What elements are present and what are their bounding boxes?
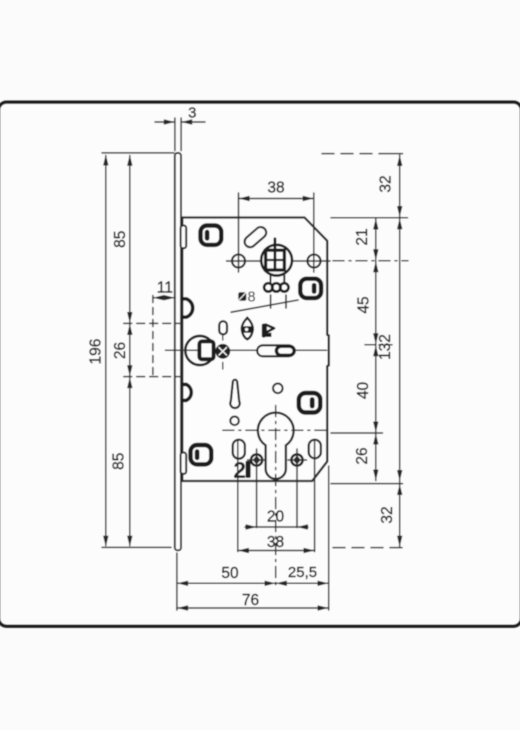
ext screw right — [296, 449, 298, 528]
dashed line lower — [124, 376, 181, 378]
svg-text:45: 45 — [356, 296, 373, 313]
right inner dim line — [375, 219, 377, 481]
svg-text:26: 26 — [112, 342, 129, 359]
arrow 32b up — [397, 484, 402, 495]
teardrop slot — [230, 380, 239, 408]
right outer dim line — [399, 155, 401, 547]
arrow 38t right — [303, 196, 314, 201]
latch axis — [166, 349, 327, 351]
D-hole bottom-left — [191, 445, 212, 464]
arrow 11 left — [153, 295, 164, 300]
arrow 20 left — [297, 524, 308, 529]
arrow 32t down — [397, 206, 402, 217]
cylinder axis dashdot — [223, 429, 330, 431]
svg-text:2: 2 — [233, 457, 246, 483]
dashed line upper — [124, 322, 181, 324]
svg-text:21: 21 — [354, 228, 371, 245]
dim 11 extension vertical — [152, 296, 154, 377]
dim 76 line — [177, 607, 329, 609]
top dash line — [322, 153, 380, 155]
leader line ø8 — [231, 300, 298, 312]
svg-text:25,5: 25,5 — [288, 564, 317, 581]
follower horizontal centreline — [227, 260, 331, 262]
latch screw — [216, 334, 229, 369]
bottom dash line — [333, 547, 404, 549]
arrowheads — [103, 119, 402, 610]
ext below faceplate — [176, 553, 178, 610]
dim 38 top line — [239, 198, 314, 200]
arrow 26l up — [127, 324, 132, 335]
body bottom ext right — [331, 483, 403, 485]
ext oval right — [314, 441, 316, 552]
arrow 196 up — [103, 155, 108, 166]
svg-text:40: 40 — [355, 382, 372, 400]
arrow 38b left — [238, 548, 249, 553]
oval left of cylinder — [233, 440, 245, 459]
left top extension — [102, 152, 174, 154]
arrow 26l down — [127, 365, 132, 376]
arrow 85b up — [127, 377, 132, 388]
svg-text:85: 85 — [112, 231, 129, 248]
small circle below slot — [273, 384, 283, 394]
latch circle — [185, 336, 214, 365]
cylinder level ext right — [331, 432, 383, 434]
arrow 196 down — [103, 536, 108, 547]
cylinder vertical dashdot — [275, 406, 277, 585]
horizontal adjuster slot — [257, 345, 294, 356]
edge tab semicircle upper — [183, 299, 193, 317]
lock body — [182, 218, 328, 482]
euro cylinder keyhole — [258, 413, 294, 479]
left bottom extension — [102, 546, 171, 548]
arrow 3 left — [181, 119, 192, 124]
bowtie stamp — [241, 318, 254, 340]
dim 196 line — [105, 156, 107, 546]
D-hole top-left — [201, 226, 222, 245]
three hole chain — [264, 283, 288, 308]
arrow 85b down — [127, 536, 132, 547]
arrow 76 right — [318, 605, 329, 610]
arrow 11 right — [164, 295, 175, 300]
D-hole right-upper — [300, 279, 321, 298]
svg-text:85: 85 — [110, 453, 127, 470]
cyl screw right — [288, 454, 307, 465]
svg-text:11: 11 — [157, 280, 173, 297]
arrow 40 down — [373, 422, 378, 433]
dim 3 line — [155, 121, 175, 123]
dim 38 bottom line — [238, 550, 315, 552]
side circle right — [308, 255, 321, 268]
dim 50 255 line — [177, 582, 329, 584]
arrow 21 down — [373, 249, 378, 260]
faceplate — [175, 153, 181, 550]
D-hole right-middle — [299, 393, 321, 413]
diagonal slot — [242, 225, 268, 250]
svg-text:132: 132 — [377, 334, 394, 360]
oval right of cylinder — [309, 440, 321, 459]
arrow 132 up — [397, 218, 402, 229]
ext oval left — [237, 441, 239, 552]
arrow 26r up — [373, 434, 378, 445]
dim 85 26 85 line — [129, 156, 131, 546]
flag stamp — [262, 324, 274, 338]
faceplate tab upper — [181, 226, 187, 249]
arrow 21 up — [373, 219, 378, 230]
dim 38 top ext right — [313, 193, 315, 272]
dim 38 top ext left — [238, 193, 240, 272]
arrow 20 right — [246, 524, 257, 529]
arrow 255 right — [318, 581, 329, 586]
arrow 45 down — [373, 333, 378, 344]
arrow 38t left — [239, 196, 250, 201]
dim 20 line — [245, 526, 308, 528]
svg-text:76: 76 — [242, 592, 259, 609]
label ø8 — [238, 290, 255, 306]
arrow 76 left — [177, 605, 188, 610]
dimension graphics — [102, 118, 408, 610]
arrow 85t up — [127, 155, 132, 166]
top edge ext right — [331, 217, 408, 219]
arrow 85t down — [127, 312, 132, 323]
stamp mark 2 — [233, 457, 250, 483]
dim 3 extension lines — [174, 118, 176, 151]
latch level dashdot right — [365, 344, 392, 346]
follower hub U1 — [261, 239, 292, 284]
svg-text:20: 20 — [267, 509, 285, 526]
arrow 45 up — [373, 261, 378, 272]
arrow 26r down — [373, 470, 378, 481]
arrow 132 down — [397, 470, 402, 481]
svg-text:196: 196 — [88, 339, 105, 365]
faceplate tab lower — [181, 453, 187, 474]
svg-text:3: 3 — [188, 105, 196, 122]
latch bolt square — [199, 341, 213, 359]
side circle left — [232, 255, 245, 268]
small circle below teardrop — [230, 417, 239, 426]
svg-text:8: 8 — [247, 290, 255, 306]
arrow 50 left — [177, 581, 188, 586]
cyl screw left — [248, 454, 267, 465]
svg-text:32: 32 — [379, 506, 396, 523]
dim 11 line — [153, 297, 175, 299]
svg-text:50: 50 — [221, 565, 239, 582]
svg-text:32: 32 — [378, 175, 395, 192]
svg-text:38: 38 — [267, 534, 284, 551]
card frame — [0, 102, 520, 626]
arrow 32b down — [397, 536, 402, 547]
arrow 3 right — [164, 119, 175, 124]
edge tab semicircle lower — [183, 384, 191, 400]
arrow 32t up — [397, 155, 402, 166]
arrow 38b right — [304, 548, 315, 553]
arrow 50 right — [265, 581, 276, 586]
follower centreline dashdot — [333, 260, 408, 262]
ext body right — [328, 466, 330, 610]
slot above latch screw — [219, 321, 227, 334]
ext screw left — [256, 449, 258, 528]
svg-text:26: 26 — [354, 447, 371, 464]
svg-text:38: 38 — [267, 180, 284, 197]
arrow 40 up — [373, 345, 378, 356]
arrow 255 left — [276, 581, 287, 586]
